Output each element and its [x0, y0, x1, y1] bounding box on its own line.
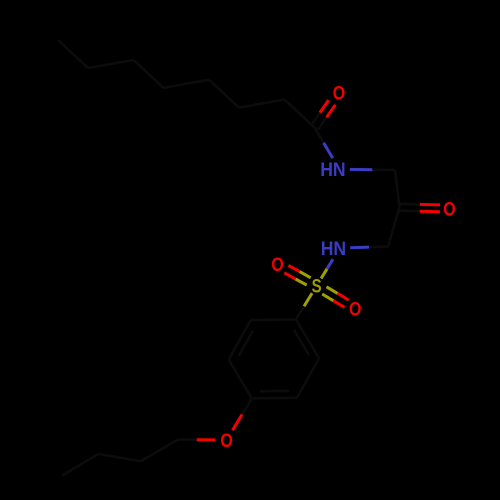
bond C-N amide — [315, 128, 324, 143]
butoxy chain bond 3 — [62, 454, 99, 476]
bond ketone C-CH2 — [388, 207, 400, 246]
svg-text:O: O — [333, 83, 345, 104]
bond CH2-C ketone — [395, 170, 400, 207]
aromatic inner line C1-C2 — [294, 330, 309, 355]
acyl chain bond 7 — [58, 40, 88, 68]
bond N-CH2 amide — [350, 168, 373, 171]
aromatic inner line C3-C4 — [260, 390, 289, 393]
svg-text:HN: HN — [321, 239, 346, 260]
bond S=O right — [322, 294, 333, 301]
svg-text:O: O — [271, 255, 283, 276]
acyl chain bond 5 — [134, 60, 164, 88]
bond N-S — [327, 259, 333, 269]
acyl chain bond 6 — [88, 60, 134, 68]
ring bond C4-C5 — [229, 360, 252, 399]
ring bond C2-C3 — [297, 358, 319, 398]
ring bond C1-C2 — [296, 320, 319, 359]
butoxy chain bond 1 — [141, 440, 178, 462]
bond S=O left — [300, 272, 311, 278]
ring bond C5-C6 — [229, 320, 251, 360]
butoxy chain bond 2 — [98, 454, 140, 461]
ring bond C6-C1 — [251, 318, 296, 321]
bond C=O amide carbonyl — [318, 117, 327, 130]
svg-text:O: O — [349, 300, 361, 321]
svg-text:S: S — [312, 277, 322, 298]
bond O-CH2 ether — [197, 438, 216, 441]
bond S-C aryl — [304, 293, 312, 306]
acyl chain bond 1 — [285, 100, 315, 128]
ring bond C3-C4 — [252, 396, 297, 399]
bond CH2-N sulfonamide — [369, 245, 388, 248]
bond C-O ether — [242, 398, 252, 414]
svg-text:O: O — [443, 199, 455, 220]
svg-text:O: O — [220, 431, 232, 452]
acyl chain bond 4 — [164, 80, 210, 88]
acyl chain bond 3 — [209, 80, 239, 108]
bond C=O ketone — [399, 209, 419, 212]
acyl chain bond 2 — [239, 100, 285, 108]
aromatic inner line C5-C6 — [239, 331, 253, 356]
svg-text:HN: HN — [320, 160, 345, 181]
